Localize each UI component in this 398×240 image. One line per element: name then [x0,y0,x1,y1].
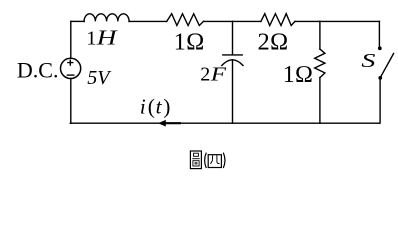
switch S blade (open) [381,54,393,76]
svg-text:2Ω: 2Ω [258,29,289,56]
svg-text:F: F [210,63,228,85]
voltage source minus terminal mark [67,74,73,76]
wire left vertical bottom (source - to bottom rail) [70,79,72,124]
wire node B to top-right corner [320,20,380,22]
caption: left parenthesis [205,153,207,168]
caption: right parenthesis [223,153,225,168]
wire top-left horizontal (corner to inductor) [71,20,84,22]
svg-text:): ) [163,94,170,118]
svg-text:i: i [140,94,146,118]
current arrow shaft overlay [163,122,181,124]
svg-text:D.C.: D.C. [17,58,59,83]
svg-text:1Ω: 1Ω [174,28,205,55]
switch S bottom contact dot [378,76,382,80]
caption: character TU (figure) drawn as strokes [190,151,201,169]
capacitor C1 2F top plate [223,54,242,56]
capacitor C1 2F bottom curved plate [222,60,243,66]
svg-text:5V: 5V [87,67,112,89]
inductor L1 1H (4 humps) [84,14,129,22]
svg-text:1Ω: 1Ω [283,62,313,88]
svg-text:2: 2 [200,63,210,85]
current arrow head i(t) pointing left on bottom rail [158,120,166,127]
caption: character SI (four) drawn as strokes [208,155,221,168]
label i(t) (current) [140,94,171,118]
voltage source V1 circle [61,58,81,78]
wire node A to resistor R2 [233,20,261,22]
label 1H (inductor value) [86,26,118,50]
resistor R3 1 ohm (shunt, vertical zigzag) [315,49,325,78]
wire capacitor bottom to bottom rail [232,60,234,123]
wire inductor to resistor R1 [129,20,167,22]
svg-text:H: H [96,26,118,50]
voltage source plus terminal mark [68,60,73,65]
wire left vertical top (corner to source +) [70,21,72,58]
wire node A down to capacitor top plate [232,21,234,54]
wire resistor R3 to bottom rail [319,78,321,124]
wire R1 to node A (capacitor junction) [204,20,233,22]
svg-text:(: ( [148,94,155,118]
resistor R2 2 ohm (series, zigzag) [261,14,295,26]
resistor R1 1 ohm (series, zigzag) [167,14,204,26]
svg-text:t: t [156,94,163,118]
wire switch bottom contact to bottom-right corner [378,80,381,124]
svg-text:S: S [361,50,375,72]
wire right rail down to switch top contact [378,21,380,46]
wire bottom rail [70,122,380,124]
wire node B down to resistor R3 [319,21,321,49]
label 2F (capacitor value) [200,63,227,86]
switch S top contact dot [378,46,382,50]
svg-text:1: 1 [86,28,96,50]
wire R2 to node B (shunt resistor junction) [295,20,320,22]
